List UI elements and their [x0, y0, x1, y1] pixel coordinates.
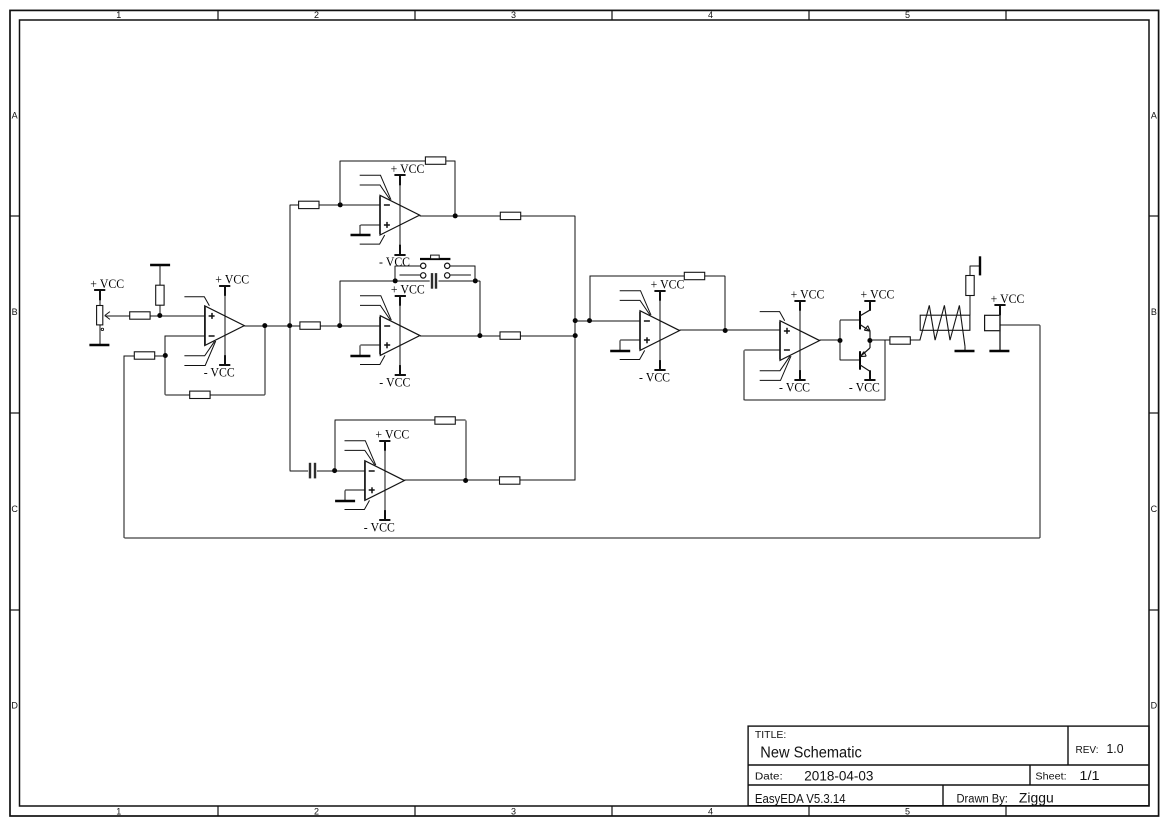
svg-text:+ VCC: + VCC: [651, 277, 685, 292]
svg-text:+ VCC: + VCC: [375, 427, 409, 442]
node: [477, 333, 482, 338]
svg-text:C: C: [1151, 504, 1158, 514]
svg-text:+ VCC: + VCC: [215, 272, 249, 287]
wire (U2 feedback loop): [340, 161, 455, 216]
sensor U7: [985, 305, 1000, 350]
wire: [124, 355, 134, 357]
-VCC power flag (U5): [639, 360, 670, 384]
svg-text:A: A: [1151, 111, 1157, 121]
node (U4 inverting input): [332, 468, 337, 473]
svg-text:1/1: 1/1: [1079, 769, 1099, 783]
resistor R5 (U2 input): [299, 201, 319, 208]
svg-text:D: D: [11, 701, 18, 711]
node (U1 output/feedback): [262, 323, 267, 328]
wire: [970, 266, 981, 276]
net flag bar (sense tap): [979, 256, 981, 275]
wire (global feedback loop): [124, 325, 1040, 538]
-VCC power flag (U1): [204, 355, 235, 379]
node: [838, 338, 843, 343]
svg-text:5: 5: [905, 10, 910, 20]
svg-text:5: 5: [905, 807, 910, 817]
wire (to integrator cap): [340, 281, 430, 326]
resistor R3 (loop feedback in): [134, 352, 154, 359]
-VCC power flag (U6): [779, 370, 810, 394]
wire (U5 feedback loop): [590, 276, 726, 331]
wire (U1 feedback bottom): [165, 326, 265, 395]
resistor R11 (U4 output): [500, 477, 520, 484]
wire: [520, 335, 575, 337]
svg-text:B: B: [1151, 307, 1157, 317]
wire (U2 output): [420, 215, 501, 217]
+VCC power flag (U7): [991, 291, 1025, 315]
wire: [575, 320, 640, 322]
resistor R8 (U3 input): [300, 322, 320, 329]
wire (feedback node vertical): [164, 336, 166, 395]
ground (U2 non-inverting input): [351, 225, 381, 235]
transistor Q2 (PNP): [860, 341, 870, 381]
svg-text:- VCC: - VCC: [364, 519, 395, 534]
wire: [159, 265, 161, 285]
capacitor C2 (differentiator input): [310, 463, 315, 479]
wire (U6 output to transistor bases): [820, 339, 840, 341]
ground (speaker): [955, 350, 975, 353]
svg-text:1: 1: [116, 10, 121, 20]
+VCC power flag (U4): [375, 427, 409, 451]
ground (U5 non-inverting input): [610, 340, 640, 351]
wire: [320, 325, 380, 327]
svg-text:Ziggu: Ziggu: [1019, 791, 1054, 806]
svg-text:4: 4: [708, 807, 713, 817]
node: [163, 353, 168, 358]
svg-text:C: C: [11, 504, 18, 514]
wire: [150, 315, 205, 317]
wire: [159, 305, 161, 315]
svg-text:EasyEDA V5.3.14: EasyEDA V5.3.14: [755, 792, 846, 806]
svg-text:TITLE:: TITLE:: [755, 730, 786, 741]
svg-text:2: 2: [314, 10, 319, 20]
node (left bus tap): [287, 323, 292, 328]
op-amp U1: [184, 287, 244, 366]
wire (right summing bus): [574, 216, 576, 481]
ground (U7): [989, 350, 1009, 353]
wire: [870, 339, 890, 341]
wire: [290, 325, 300, 327]
wire: [290, 204, 299, 206]
net flag bar (reference rail): [150, 264, 170, 266]
wire (U5 output to U6): [680, 329, 780, 331]
op-amp U4: [345, 441, 405, 520]
wire: [99, 290, 101, 305]
speaker LS1: [920, 305, 970, 350]
resistor R14 (sense): [966, 276, 974, 296]
node: [723, 328, 728, 333]
op-amp U5: [620, 291, 680, 370]
op-amp U2: [360, 175, 420, 254]
resistor R9 (U3 output): [500, 332, 520, 339]
svg-text:+ VCC: + VCC: [391, 282, 425, 297]
op-amp U3: [360, 296, 420, 375]
wire: [520, 479, 575, 481]
svg-text:New Schematic: New Schematic: [760, 744, 862, 761]
transistor Q1 (NPN): [860, 301, 871, 341]
svg-text:2: 2: [314, 807, 319, 817]
svg-text:- VCC: - VCC: [779, 379, 810, 394]
resistor R12 (U5 feedback): [684, 272, 704, 279]
svg-text:+ VCC: + VCC: [791, 287, 825, 302]
svg-text:- VCC: - VCC: [639, 369, 670, 384]
wire: [155, 355, 166, 357]
+VCC power flag (Q1): [861, 287, 895, 311]
wire: [910, 339, 920, 341]
node: [453, 213, 458, 218]
wire (U3 output): [420, 335, 500, 337]
svg-text:- VCC: - VCC: [379, 374, 410, 389]
node (U3 inverting input): [337, 323, 342, 328]
ground (potentiometer): [89, 344, 109, 347]
resistor R6 (U2 feedback): [425, 157, 445, 164]
svg-text:+ VCC: + VCC: [861, 287, 895, 302]
wire (U1 output): [244, 325, 300, 327]
push button S1 (integrator reset): [395, 255, 475, 281]
wire: [969, 296, 971, 316]
svg-text:Drawn By:: Drawn By:: [957, 794, 1008, 806]
node (non-inverting input): [157, 313, 162, 318]
node: [573, 333, 578, 338]
wire: [290, 470, 308, 472]
svg-text:- VCC: - VCC: [849, 380, 880, 395]
svg-text:+ VCC: + VCC: [991, 291, 1025, 306]
wire: [521, 215, 576, 217]
svg-text:1.0: 1.0: [1107, 741, 1124, 756]
svg-text:1: 1: [116, 807, 121, 817]
resistor R13 (output series): [890, 337, 910, 344]
node (emitter output): [867, 338, 872, 343]
svg-text:Sheet:: Sheet:: [1035, 772, 1066, 783]
node (U5 inverting input): [587, 318, 592, 323]
+VCC power flag (U5): [651, 277, 685, 301]
wire: [317, 470, 365, 472]
wire (left distribution bus): [289, 205, 291, 471]
svg-text:+ VCC: + VCC: [391, 161, 425, 176]
node: [463, 478, 468, 483]
svg-text:+ VCC: + VCC: [90, 276, 124, 291]
wire (U6 feedback loop): [744, 341, 885, 401]
svg-text:REV:: REV:: [1076, 745, 1099, 756]
-VCC power flag (U2): [379, 245, 410, 269]
+VCC power flag (U6): [791, 287, 825, 311]
resistor R4 (U1 feedback): [190, 391, 210, 398]
svg-text:- VCC: - VCC: [204, 365, 235, 380]
node: [573, 318, 578, 323]
-VCC power flag (U3): [379, 365, 410, 389]
potentiometer RP1: [97, 306, 110, 331]
+VCC power flag (U1): [215, 272, 249, 296]
wire (U4 output): [404, 479, 499, 481]
wire (wiper to R1): [105, 315, 130, 317]
+VCC power flag (potentiometer supply): [90, 276, 124, 300]
+VCC power flag (U3): [391, 282, 425, 306]
resistor R7 (U2 output): [500, 212, 520, 219]
svg-text:3: 3: [511, 10, 516, 20]
ground (U3 non-inverting input): [350, 345, 380, 356]
svg-text:D: D: [1151, 701, 1158, 711]
svg-text:B: B: [12, 307, 18, 317]
ground (U4 non-inverting input): [335, 490, 365, 501]
wire: [319, 204, 380, 206]
svg-text:Date:: Date:: [755, 772, 783, 783]
+VCC power flag (U2): [391, 161, 425, 185]
resistor R1: [130, 312, 150, 319]
wire (U4 feedback loop): [335, 420, 466, 481]
wire: [99, 325, 101, 345]
wire: [439, 281, 481, 336]
resistor R2: [156, 285, 164, 305]
-VCC power flag (Q2): [849, 370, 880, 394]
svg-text:A: A: [12, 111, 18, 121]
svg-text:2018-04-03: 2018-04-03: [804, 767, 873, 783]
capacitor C1 (integrator): [432, 273, 436, 289]
op-amp U6: [760, 302, 820, 381]
svg-text:4: 4: [708, 10, 713, 20]
wire (inverting input): [165, 335, 204, 337]
resistor R10 (U4 feedback): [435, 417, 455, 424]
node: [473, 278, 478, 283]
node: [393, 278, 398, 283]
node (U2 inverting input): [338, 202, 343, 207]
wire (base bus): [840, 320, 860, 360]
-VCC power flag (U4): [364, 510, 395, 534]
svg-text:3: 3: [511, 807, 516, 817]
